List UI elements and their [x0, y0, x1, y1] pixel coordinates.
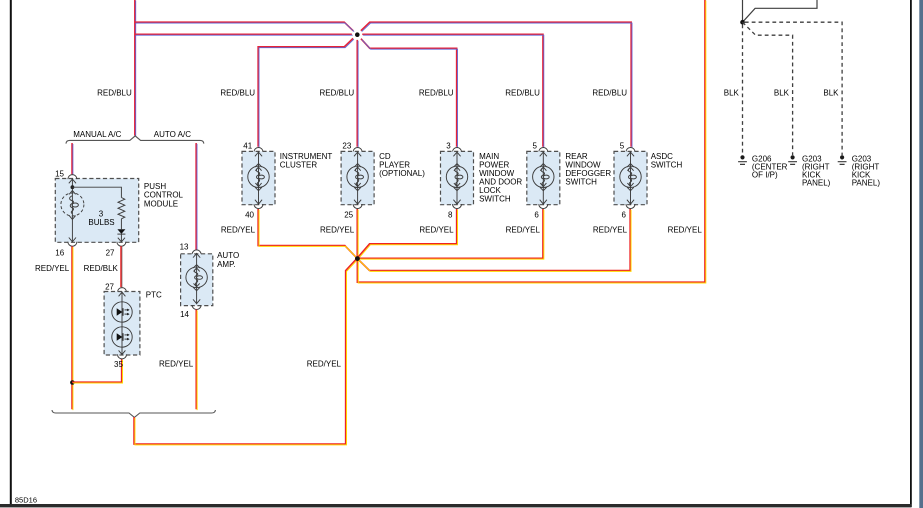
ASDC switch box [614, 151, 647, 204]
svg-text:SWITCH: SWITCH [651, 160, 683, 169]
PTC bottom arrow [119, 350, 126, 354]
svg-text:6: 6 [534, 210, 539, 219]
wire auto A/C branch to AUTO AMP pin 13 [195, 143, 197, 250]
pin 15 bump [68, 175, 77, 180]
svg-text:RED/YEL: RED/YEL [320, 226, 355, 235]
pin 8 bump [453, 204, 462, 209]
pin 27 bump (PCM bottom) [117, 242, 126, 247]
pin 5 bump (defogger) [539, 148, 548, 153]
pin 14 bump [192, 305, 201, 310]
svg-text:5: 5 [620, 141, 625, 150]
wire RED/YEL instrument cluster pin40 to junction [258, 209, 357, 258]
brace connector bottom [52, 410, 215, 417]
ground G203 (center) [788, 155, 797, 164]
svg-text:PTC: PTC [146, 291, 162, 300]
svg-text:(OPTIONAL): (OPTIONAL) [379, 169, 425, 178]
pin 6 bump (ASDC) [626, 204, 635, 209]
PCM bulb down arrow [69, 216, 75, 220]
svg-text:5: 5 [533, 141, 538, 150]
PCM bulb up arrow [69, 191, 75, 195]
svg-text:8: 8 [448, 210, 453, 219]
wire RED/YEL from pin 14 to bottom brace [195, 310, 197, 410]
svg-text:23: 23 [342, 141, 351, 150]
wire diode to pin 27 [120, 234, 122, 242]
wire solid BLK vertical from top [742, 0, 744, 20]
CD player bulb [347, 151, 368, 204]
wire bus line B through junction to defogger drop [135, 34, 543, 146]
svg-text:13: 13 [180, 242, 189, 251]
wire RED/BLK from pin 27 to PTC [120, 246, 122, 287]
wire RED/YEL from brace to lower junction [134, 258, 357, 444]
svg-text:BULBS: BULBS [88, 218, 114, 227]
junction dot lower left [70, 380, 75, 385]
svg-text:RED/YEL: RED/YEL [668, 226, 703, 235]
svg-text:RED/YEL: RED/YEL [593, 226, 628, 235]
pin 6 bump (defogger) [539, 204, 548, 209]
svg-text:RED/YEL: RED/YEL [35, 264, 70, 273]
svg-text:CONTROL: CONTROL [144, 191, 184, 200]
svg-text:RED/BLU: RED/BLU [592, 88, 627, 97]
diode D1 in PCM [117, 229, 125, 234]
ASDC switch bulb [620, 151, 641, 204]
wire solid BLK bent from top [743, 0, 818, 22]
module box PCM [55, 179, 138, 243]
main power window box [441, 151, 474, 204]
wire dashed BLK 3 (to G203 right) [745, 22, 842, 155]
pin 41 bump [254, 148, 263, 153]
svg-text:RED/YEL: RED/YEL [221, 226, 256, 235]
wire RED/BLU main vertical from top to brace [134, 0, 136, 135]
svg-text:RED/BLU: RED/BLU [220, 88, 255, 97]
wire RED/YEL defogger pin6 to junction [357, 209, 543, 258]
pin 35 bump (PTC bottom) [118, 354, 127, 359]
PCM internal bridge wire to resistor branch [72, 187, 121, 197]
wire CD player drop from junction [356, 40, 358, 147]
wire dashed BLK 1 (to G206) [742, 25, 744, 156]
svg-text:RED/BLU: RED/BLU [505, 88, 540, 97]
PTC LED 1 [112, 302, 132, 322]
svg-text:15: 15 [55, 170, 64, 179]
PCM left branch bottom arrow [69, 238, 76, 242]
svg-text:6: 6 [622, 210, 627, 219]
svg-text:41: 41 [243, 141, 252, 150]
pin 5 bump (ASDC) [626, 148, 635, 153]
pin 25 bump [353, 204, 362, 209]
svg-text:RED/BLK: RED/BLK [84, 264, 119, 273]
svg-text:AUTO: AUTO [217, 251, 239, 260]
pin 3 bump [453, 148, 462, 153]
AUTO AMP bulb symbol [186, 253, 207, 304]
svg-text:RED/YEL: RED/YEL [159, 360, 194, 369]
pin 23 bump [353, 148, 362, 153]
right page border [910, 0, 912, 507]
wire RED/YEL far right from top into junction [357, 0, 705, 282]
svg-text:CLUSTER: CLUSTER [280, 160, 318, 169]
svg-text:RED/BLU: RED/BLU [320, 88, 355, 97]
junction dot top (RED/BLU bus) [355, 32, 360, 37]
wire resistor to diode [120, 219, 122, 229]
svg-text:40: 40 [245, 210, 254, 219]
svg-text:25: 25 [344, 210, 353, 219]
pin 40 bump [254, 204, 263, 209]
main power window bulb [446, 151, 467, 204]
svg-text:16: 16 [55, 248, 64, 257]
svg-text:BLK: BLK [774, 88, 790, 97]
PCM internal top arrow [69, 179, 76, 183]
pin 27 bump (PTC top) [118, 288, 127, 293]
svg-text:27: 27 [105, 282, 114, 291]
junction dot lower (RED/YEL bus) [355, 256, 360, 261]
svg-text:AUTO A/C: AUTO A/C [154, 130, 191, 139]
junction dot BLK [740, 20, 745, 25]
wire bus line A upper right to ASDC drop [361, 22, 631, 147]
svg-text:BLK: BLK [823, 88, 839, 97]
PCM right branch bottom arrow [118, 238, 125, 242]
wire bus line C instrument cluster drop [258, 38, 353, 146]
svg-text:PANEL): PANEL) [802, 179, 831, 188]
wire RED/YEL from pin 16 down to bottom brace [71, 246, 73, 409]
wire RED/YEL CD player pin25 to junction [356, 209, 358, 258]
PCM internal left branch wire [71, 179, 73, 243]
svg-text:27: 27 [106, 248, 115, 257]
svg-text:MANUAL A/C: MANUAL A/C [73, 130, 121, 139]
pin 13 bump [192, 250, 201, 255]
ground G203 (right) [838, 155, 847, 164]
wire bus line A upper left into junction [135, 22, 353, 31]
AUTO AMP box [181, 254, 213, 306]
wire RED/YEL main power window pin8 to junction [357, 209, 457, 258]
svg-text:SWITCH: SWITCH [565, 177, 597, 186]
CD player box [341, 151, 374, 204]
svg-text:3: 3 [446, 141, 451, 150]
PTC internal wire [121, 292, 123, 356]
svg-text:RED/BLU: RED/BLU [419, 88, 454, 97]
PCM bulb filament [70, 196, 74, 214]
instrument cluster bulb [248, 151, 269, 204]
wire PTC pin35 to junction [72, 359, 122, 382]
bottom page border [0, 504, 912, 507]
wire bus line D main power window drop [361, 39, 457, 147]
svg-text:RED/YEL: RED/YEL [307, 360, 342, 369]
svg-text:BLK: BLK [724, 88, 740, 97]
PTC top arrow [119, 292, 126, 296]
instrument cluster box [242, 151, 275, 204]
PCM bulb (3 bulbs) dashed circle [61, 193, 84, 216]
svg-text:35: 35 [114, 360, 123, 369]
PTC box [104, 292, 140, 356]
svg-text:14: 14 [180, 310, 189, 319]
svg-text:PUSH: PUSH [144, 182, 166, 191]
svg-text:AMP.: AMP. [217, 260, 236, 269]
resistor R1 in PCM [118, 198, 125, 219]
brace connector top [66, 136, 204, 144]
svg-text:3: 3 [99, 209, 104, 218]
pin 16 bump [68, 242, 77, 247]
svg-text:SWITCH: SWITCH [479, 194, 511, 203]
svg-text:MODULE: MODULE [144, 199, 178, 208]
svg-text:PANEL): PANEL) [852, 179, 881, 188]
svg-text:85D16: 85D16 [15, 495, 37, 504]
left page border [10, 0, 12, 507]
PTC LED 2 [112, 327, 132, 347]
defogger switch bulb [533, 151, 554, 204]
wire RED/YEL ASDC pin6 to junction [357, 209, 630, 271]
svg-text:OF I/P): OF I/P) [752, 171, 778, 180]
svg-text:RED/YEL: RED/YEL [419, 226, 454, 235]
ground G206 [738, 155, 747, 164]
PCM bulb filament loop [72, 203, 78, 207]
wire manual A/C branch to PCM pin 15 [71, 143, 73, 174]
right scrollbar sliver [919, 0, 923, 508]
defogger switch box [527, 151, 560, 204]
svg-text:RED/YEL: RED/YEL [506, 226, 541, 235]
wire dashed BLK 2 (to G203 center) [743, 22, 793, 155]
svg-text:RED/BLU: RED/BLU [97, 88, 132, 97]
PCM internal junction node [71, 185, 75, 189]
